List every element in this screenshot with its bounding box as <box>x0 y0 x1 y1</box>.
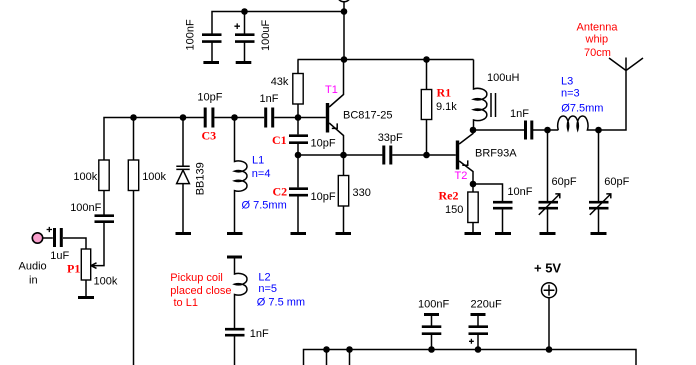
svg-text:C1: C1 <box>272 133 287 147</box>
svg-text:Antenna: Antenna <box>577 22 619 34</box>
svg-text:BRF93A: BRF93A <box>475 148 517 160</box>
svg-text:10nF: 10nF <box>507 186 532 198</box>
svg-text:BC817-25: BC817-25 <box>343 110 393 122</box>
svg-text:100nF: 100nF <box>70 202 101 214</box>
svg-text:L2: L2 <box>258 272 270 284</box>
svg-text:n=4: n=4 <box>252 168 271 180</box>
svg-text:9.1k: 9.1k <box>436 101 457 113</box>
svg-text:T2: T2 <box>455 170 468 182</box>
svg-text:150: 150 <box>445 204 463 216</box>
svg-text:100nF: 100nF <box>185 19 197 50</box>
svg-text:R1: R1 <box>437 86 452 100</box>
svg-text:100k: 100k <box>142 171 166 183</box>
svg-text:P1: P1 <box>67 262 80 276</box>
svg-text:T1: T1 <box>325 84 338 96</box>
svg-text:10pF: 10pF <box>311 191 336 203</box>
svg-text:1uF: 1uF <box>50 250 69 262</box>
svg-text:Audio: Audio <box>19 261 47 273</box>
svg-text:10pF: 10pF <box>197 91 222 103</box>
svg-text:70cm: 70cm <box>584 47 611 59</box>
svg-text:placed close: placed close <box>170 285 231 297</box>
svg-text:60pF: 60pF <box>604 176 629 188</box>
svg-text:100k: 100k <box>94 276 118 288</box>
svg-text:60pF: 60pF <box>552 176 577 188</box>
svg-text:Ø 7.5mm: Ø 7.5mm <box>242 200 287 212</box>
svg-text:in: in <box>29 275 38 287</box>
svg-text:220uF: 220uF <box>471 299 502 311</box>
svg-text:BB139: BB139 <box>194 162 206 195</box>
svg-text:100uF: 100uF <box>260 20 272 51</box>
svg-text:1nF: 1nF <box>250 328 269 340</box>
svg-text:100k: 100k <box>73 171 97 183</box>
svg-text:100nF: 100nF <box>418 299 449 311</box>
svg-text:+ 5V: + 5V <box>534 261 561 276</box>
svg-text:n=3: n=3 <box>561 88 580 100</box>
svg-text:33pF: 33pF <box>378 132 403 144</box>
svg-text:Re2: Re2 <box>439 189 459 203</box>
svg-text:Pickup coil: Pickup coil <box>170 272 223 284</box>
svg-text:1nF: 1nF <box>260 93 279 105</box>
svg-text:whip: whip <box>585 34 609 46</box>
svg-text:C2: C2 <box>273 185 288 199</box>
svg-text:100uH: 100uH <box>487 72 519 84</box>
svg-text:L3: L3 <box>561 76 573 88</box>
svg-text:Ø 7.5 mm: Ø 7.5 mm <box>257 297 305 309</box>
svg-text:n=5: n=5 <box>258 283 277 295</box>
svg-text:10pF: 10pF <box>311 138 336 150</box>
svg-text:Ø7.5mm: Ø7.5mm <box>561 103 603 115</box>
svg-text:43k: 43k <box>271 76 289 88</box>
svg-text:C3: C3 <box>202 129 217 143</box>
svg-text:1nF: 1nF <box>510 108 529 120</box>
svg-text:L1: L1 <box>252 155 264 167</box>
svg-text:330: 330 <box>353 187 371 199</box>
svg-text:to L1: to L1 <box>174 297 198 309</box>
